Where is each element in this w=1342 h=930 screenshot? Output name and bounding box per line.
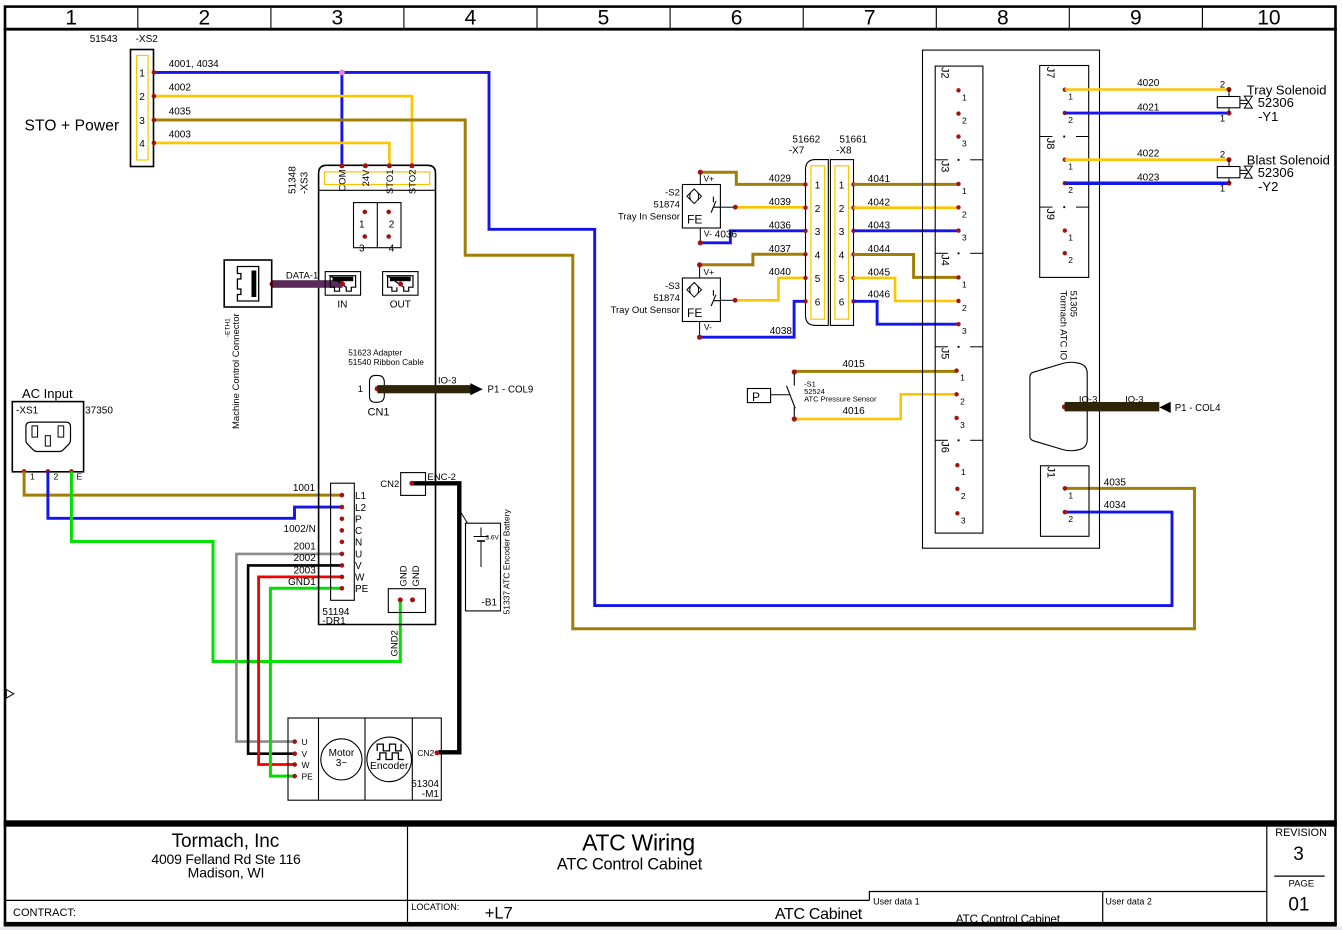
svg-text:V-: V- [704,229,712,239]
svg-text:4034: 4034 [1104,500,1127,511]
XS1 pin E [69,469,74,474]
svg-text:-S2: -S2 [665,187,680,198]
IN pin node [340,282,345,287]
svg-text:52306: 52306 [1258,95,1294,110]
solenoid Y2 pin 2 [1227,157,1232,162]
column header row line [4,28,1337,31]
svg-text:2: 2 [962,303,967,313]
J3 pin 1 [956,182,960,186]
svg-text:COM: COM [338,169,349,191]
S3 V+ stub and node [699,265,701,278]
svg-text:-Y1: -Y1 [1258,109,1278,124]
wire 1001 olive [24,471,340,495]
svg-text:J3: J3 [939,161,951,173]
wire 4015 olive [794,370,956,373]
wire 4041 olive [854,183,959,186]
user data boxes [869,892,1266,901]
svg-text:PE: PE [302,772,314,782]
svg-text:IO-3: IO-3 [1079,395,1097,406]
block pin 2 [386,210,391,215]
X8 pin 2 [851,206,855,210]
wire 4045 yellow [854,278,959,301]
SECTION: title block [0,820,1342,930]
svg-text:L1: L1 [355,491,367,502]
svg-text:7: 7 [864,7,876,30]
svg-text:2: 2 [1068,115,1073,125]
svg-text:6: 6 [839,297,845,308]
svg-text:CONTRACT:: CONTRACT: [13,907,76,919]
J8/J9 divider [1040,206,1053,208]
svg-text:J5: J5 [939,348,951,360]
SECTION: left column components [12,34,1194,776]
battery leader line [460,511,467,523]
svg-text:IO-3: IO-3 [1125,395,1143,406]
J5 pin 2 [954,392,958,396]
page divider line [1274,875,1325,877]
svg-text:2001: 2001 [294,541,317,552]
X8 pin 3 [851,229,855,233]
svg-text:2: 2 [389,220,395,231]
svg-text:N: N [355,538,362,549]
S3 output stub and node [720,299,735,301]
wire 4002 yellow [155,96,412,166]
svg-text:1: 1 [359,220,365,231]
wire 4021 blue [1065,112,1229,115]
DR1 pin U [340,552,345,557]
svg-text:-S3: -S3 [665,281,680,292]
svg-text:2: 2 [1068,185,1073,195]
solenoid Y2 coil [1228,160,1230,167]
svg-text:3: 3 [815,227,821,238]
X8 pin 5 [851,276,855,280]
XS3 pin STO2 [409,163,414,168]
connector XS2 body [131,50,154,167]
svg-text:AC Input: AC Input [22,386,73,401]
X7 pin 5 [803,276,807,280]
svg-text:3: 3 [1293,844,1304,865]
svg-text:P: P [752,390,760,404]
svg-text:J8: J8 [1044,138,1056,150]
solenoid Y1 valve symbol [1240,99,1248,101]
svg-text:PE: PE [355,584,369,595]
cable ENC-2 black [414,483,460,752]
svg-text:3: 3 [961,515,966,525]
svg-text:-X8: -X8 [836,146,852,157]
DR1 pin N [340,540,345,545]
SECTION: ATC IO board [923,50,1222,548]
svg-text:1: 1 [1220,113,1225,124]
SECTION: motor area [288,718,441,800]
svg-text:3.6V: 3.6V [486,535,500,542]
svg-text:STO2: STO2 [408,170,419,195]
svg-text:STO + Power: STO + Power [25,118,120,135]
encoder circle [367,737,412,782]
RJ45 jack IN [325,272,360,296]
svg-text:3~: 3~ [336,758,348,769]
pressure sensor S1 contact [792,369,797,374]
motor pin W [292,762,297,767]
J2/J3 divider [935,159,948,161]
svg-text:J6: J6 [939,441,951,453]
svg-text:REVISION: REVISION [1275,827,1327,839]
J4/J5 divider [935,346,948,348]
svg-text:4: 4 [839,251,845,262]
title block cell divider company/title [407,827,409,922]
svg-text:4003: 4003 [169,130,192,141]
XS3 header divider [319,189,436,191]
connector X7 body [806,160,829,326]
svg-text:2: 2 [839,204,845,215]
S3 switch contact [711,290,720,306]
svg-text:3: 3 [962,139,967,149]
junction node 4001/COM [339,70,345,76]
svg-text:GND: GND [399,565,410,586]
connector CN2 drive [401,473,426,496]
X8 pin 4 [851,252,855,256]
svg-text:6: 6 [815,297,821,308]
connector XS1 AC inlet body [12,402,83,472]
svg-text:5: 5 [598,7,610,30]
DR1 pin L1 [340,493,345,498]
wire 4037 olive [700,254,806,264]
J6 pin 3 [955,511,959,515]
svg-text:5: 5 [839,274,845,285]
title block top border [4,820,1337,826]
svg-text:8: 8 [997,7,1009,30]
svg-text:ATC Cabinet: ATC Cabinet [775,906,863,923]
svg-text:U: U [302,737,308,747]
J1 pin 1 [1063,486,1068,491]
svg-text:4035: 4035 [169,107,192,118]
svg-text:1: 1 [1068,490,1073,500]
J9 pin 1 [1063,228,1067,232]
svg-text:IO-3: IO-3 [438,376,456,387]
svg-text:51662: 51662 [792,135,820,146]
svg-text:ATC Control Cabinet: ATC Control Cabinet [956,912,1061,926]
svg-text:4035: 4035 [1104,478,1127,489]
X8 pin 6 [851,299,855,303]
svg-text:2: 2 [1068,514,1073,524]
wire 4001 branch to COM [340,72,343,165]
svg-text:GND: GND [411,565,422,586]
svg-text:V+: V+ [704,173,715,183]
wire 4042 yellow [854,206,959,209]
X7 pin 3 [803,229,807,233]
J2 pin 3 [956,134,960,138]
XS1 prong E [45,436,50,446]
svg-text:4: 4 [389,244,395,255]
svg-text:3: 3 [962,233,967,243]
svg-text:1: 1 [1068,233,1073,243]
wire 4016 yellow [794,394,956,419]
XS1 IEC socket face [26,422,71,451]
svg-text:Tormach, Inc: Tormach, Inc [172,831,280,852]
svg-text:4002: 4002 [169,83,192,94]
svg-text:3: 3 [359,244,365,255]
svg-text:4021: 4021 [1137,102,1160,113]
ground pin GND a [398,597,403,602]
board XS3 outline [319,165,436,624]
XS1 prong L [32,426,38,437]
DR1 pin P [340,517,345,522]
svg-text:GND2: GND2 [390,630,401,656]
svg-text:P: P [355,515,362,526]
svg-text:10: 10 [1257,7,1280,30]
wire 4043 blue [854,229,959,232]
svg-text:4: 4 [465,7,477,30]
ground block [388,589,425,613]
svg-text:CN2: CN2 [417,748,434,758]
ground pin GND b [410,597,415,602]
block pin 1 [363,210,368,215]
DR1 pin W [340,575,345,580]
J9 pin 2 [1063,251,1067,255]
svg-text:-X7: -X7 [789,146,805,157]
svg-text:-XS2: -XS2 [136,34,159,45]
svg-text:1: 1 [1220,184,1225,195]
J2 pin 1 [956,88,960,92]
svg-text:P1 - COL4: P1 - COL4 [1175,403,1221,414]
svg-text:2: 2 [1220,150,1225,161]
svg-text:52306: 52306 [1258,165,1294,180]
svg-text:Tormach ATC IO: Tormach ATC IO [1057,291,1068,361]
svg-text:J9: J9 [1044,208,1056,220]
battery symbol [480,528,482,537]
svg-text:4041: 4041 [868,174,891,185]
DATA-1 end node right [340,282,345,287]
svg-text:51874: 51874 [653,199,679,210]
S2 V- stub and node [699,228,701,243]
CN2 pin node [409,481,414,486]
J7/J8 divider [1040,136,1053,138]
DR1 pin V [340,563,345,568]
XS3 header orange frame [325,172,430,185]
RJ45 jack OUT [383,272,418,296]
S2 proximity diamond [687,189,702,204]
svg-text:User data 1: User data 1 [873,897,920,907]
J8 pin 1 [1063,158,1067,162]
connector J1 box [1041,466,1090,537]
svg-text:4023: 4023 [1137,173,1160,184]
svg-text:3: 3 [332,7,344,30]
DR1 pin L2 [340,505,345,510]
svg-text:4015: 4015 [842,359,865,370]
svg-text:2: 2 [54,472,59,482]
wire 4022 yellow [1065,158,1229,161]
svg-text:4001, 4034: 4001, 4034 [169,59,219,70]
wire GND1 green [270,588,340,776]
svg-text:J1: J1 [1045,467,1057,479]
svg-text:1: 1 [139,68,145,79]
svg-text:51348: 51348 [288,166,299,194]
J3 pin 3 [956,228,960,232]
encoder waveform icon [377,744,401,751]
svg-text:4: 4 [815,251,821,262]
svg-text:1: 1 [962,279,967,289]
svg-text:01: 01 [1288,895,1309,916]
IO-3 arrow head [470,383,483,395]
column dividers [138,8,1203,28]
svg-text:CN2: CN2 [380,479,399,490]
S2 V+ stub and node [699,172,701,184]
solenoid Y2 pin 1 [1227,181,1232,186]
svg-text:4038: 4038 [770,326,793,337]
svg-text:4045: 4045 [868,268,891,279]
svg-text:3: 3 [962,326,967,336]
svg-text:37350: 37350 [85,406,113,417]
svg-text:J4: J4 [939,254,951,266]
svg-text:4044: 4044 [868,244,891,255]
OUT pin node [398,282,403,287]
svg-text:Encoder: Encoder [370,761,409,772]
svg-text:J7: J7 [1044,67,1056,79]
svg-text:1: 1 [1068,92,1073,102]
svg-text:2: 2 [139,92,145,103]
svg-text:1: 1 [839,180,845,191]
XS1 pin 2 [46,469,51,474]
right J header block [1040,66,1089,278]
J4 pin 3 [956,322,960,326]
S2 switch contact [711,197,720,213]
svg-text:LOCATION:: LOCATION: [411,902,459,912]
svg-text:1: 1 [1068,162,1073,172]
S3 proximity diamond [687,283,702,298]
svg-text:1: 1 [960,373,965,383]
solenoid Y1 pin 1 [1227,111,1232,116]
wire 4040 yellow [735,278,806,300]
svg-text:1: 1 [65,7,77,30]
J5 pin 1 [954,368,958,372]
svg-text:User data 2: User data 2 [1105,897,1152,907]
svg-text:51543: 51543 [90,34,118,45]
X7 pin 2 [803,206,807,210]
connector DR1 block [331,483,355,600]
wire 4038 blue [700,301,806,337]
svg-text:+L7: +L7 [485,905,513,923]
svg-text:4: 4 [139,139,145,150]
XS3 pin 24V [363,163,368,168]
S3 V- stub and node [699,322,701,338]
wire 4020 yellow [1065,88,1229,91]
DATA-1 end node left [270,282,275,287]
J7 pin 1 [1063,88,1067,92]
svg-text:IN: IN [337,300,347,311]
svg-text:Tray In Sensor: Tray In Sensor [618,211,680,222]
svg-text:4042: 4042 [868,197,891,208]
svg-text:Machine Control Connector: Machine Control Connector [231,313,242,429]
svg-text:PAGE: PAGE [1288,879,1314,890]
motor pin V [292,751,297,756]
left J header block [935,66,983,533]
svg-text:Madison, WI: Madison, WI [188,865,265,881]
svg-text:U: U [355,550,362,561]
J2 pin 2 [956,111,960,115]
svg-text:STO1: STO1 [385,170,396,195]
J6 pin 1 [955,463,959,467]
svg-text:P1 - COL9: P1 - COL9 [488,384,534,395]
X8 pin 1 [851,182,855,186]
svg-text:V: V [302,749,308,759]
svg-text:2: 2 [960,396,965,406]
svg-text:51661: 51661 [839,135,867,146]
svg-text:2: 2 [962,116,967,126]
svg-text:ATC Control Cabinet: ATC Control Cabinet [557,856,703,874]
J6 pin 2 [955,487,959,491]
svg-text:OUT: OUT [390,300,411,311]
wire 4029 olive [700,172,806,184]
svg-text:4040: 4040 [769,267,792,278]
block pin 4 [386,234,391,239]
left border alignment marker [6,690,14,699]
machine control connector RJ45 jack [237,267,258,302]
S2 output stub and node [720,206,735,208]
svg-text:1: 1 [962,186,967,196]
svg-text:Tray Out Sensor: Tray Out Sensor [611,305,680,316]
svg-text:FE: FE [687,213,702,227]
battery B1 box [466,523,501,611]
svg-text:4022: 4022 [1137,149,1160,160]
block pin 3 [363,234,368,239]
wire 4023 blue [1065,181,1229,185]
wire 2002 black [248,565,340,753]
svg-text:51874: 51874 [653,293,679,304]
svg-text:2003: 2003 [294,566,317,577]
svg-text:DATA-1: DATA-1 [286,271,318,282]
connector CN1 [370,375,385,402]
svg-text:J2: J2 [939,67,951,79]
svg-text:CN1: CN1 [368,406,390,418]
title block row divider [5,899,869,901]
J1 pin 2 [1063,510,1068,515]
svg-text:4043: 4043 [868,221,891,232]
svg-text:L2: L2 [355,503,367,514]
svg-text:1: 1 [30,472,35,482]
gray strip below page [0,927,1342,930]
svg-text:6: 6 [731,7,743,30]
svg-text:4039: 4039 [769,197,792,208]
wire 4046 blue [854,301,959,324]
title block bottom border [4,922,1337,927]
wire 4039 yellow [735,206,806,209]
board ATC IO outline [923,50,1100,548]
SECTION: solenoids [1065,78,1330,194]
motor circle [321,739,362,780]
wire 4044 olive [854,255,959,278]
XS1 prong N [58,426,64,437]
svg-text:4036: 4036 [769,220,792,231]
machine control connector box [224,260,272,307]
svg-text:24V: 24V [361,169,372,187]
wire 4003 yellow [155,143,389,166]
svg-text:1: 1 [962,92,967,102]
svg-text:1: 1 [815,180,821,191]
motor pin U [292,739,297,744]
sensor S3 body [682,278,720,322]
J4 pin 2 [956,299,960,303]
wire 4035 olive net [155,120,1195,629]
svg-text:ATC Pressure Sensor: ATC Pressure Sensor [804,395,877,404]
svg-text:2: 2 [1068,255,1073,265]
svg-text:4037: 4037 [769,244,792,255]
svg-text:1: 1 [961,467,966,477]
pressure sensor P box [747,389,770,403]
cable IO-3 left bar [377,385,470,393]
J5/J6 divider [935,439,948,441]
sensor S2 body [682,185,720,229]
svg-text:1002/N: 1002/N [284,524,316,535]
J4 pin 1 [956,275,960,279]
cable IO-3 right bar [1065,402,1160,411]
